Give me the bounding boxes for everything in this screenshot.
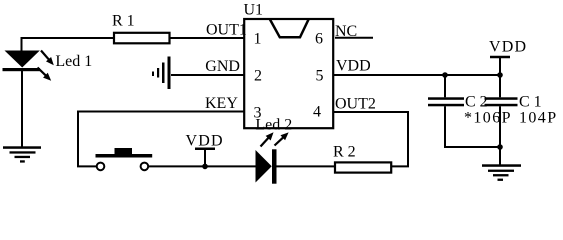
svg-text:VDD: VDD — [489, 39, 527, 56]
svg-text:2: 2 — [254, 68, 262, 85]
svg-text:6: 6 — [315, 30, 323, 47]
svg-text:OUT1: OUT1 — [206, 22, 247, 39]
svg-text:104P: 104P — [519, 110, 558, 127]
svg-text:U1: U1 — [244, 2, 264, 19]
svg-text:4: 4 — [313, 104, 321, 121]
svg-text:Led 1: Led 1 — [55, 53, 92, 70]
svg-text:C 1: C 1 — [519, 94, 542, 111]
svg-text:OUT2: OUT2 — [335, 96, 376, 113]
svg-text:Led 2: Led 2 — [255, 117, 292, 134]
svg-text:*106P: *106P — [464, 110, 512, 127]
svg-text:KEY: KEY — [205, 95, 238, 112]
svg-text:R 1: R 1 — [112, 13, 135, 30]
svg-text:R 2: R 2 — [333, 144, 356, 161]
svg-text:5: 5 — [316, 68, 324, 85]
svg-text:C 2: C 2 — [465, 94, 488, 111]
svg-text:VDD: VDD — [186, 133, 224, 150]
svg-text:GND: GND — [205, 58, 240, 75]
svg-text:NC: NC — [335, 23, 357, 40]
svg-text:VDD: VDD — [336, 58, 371, 75]
svg-text:1: 1 — [254, 30, 262, 47]
